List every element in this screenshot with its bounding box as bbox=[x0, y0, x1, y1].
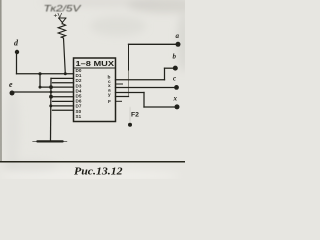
svg-text:e: e bbox=[9, 80, 13, 89]
svg-text:b: b bbox=[173, 53, 177, 61]
svg-text:y: y bbox=[108, 93, 111, 98]
svg-text:1–8 MUX: 1–8 MUX bbox=[76, 61, 115, 68]
svg-text:a: a bbox=[176, 32, 180, 40]
svg-text:Тк2/5V: Тк2/5V bbox=[44, 4, 83, 15]
svg-text:S1: S1 bbox=[76, 114, 82, 119]
svg-text:Рис.13.12: Рис.13.12 bbox=[74, 166, 123, 178]
svg-text:F: F bbox=[108, 99, 111, 105]
svg-text:F2: F2 bbox=[131, 112, 139, 119]
svg-text:+V: +V bbox=[54, 13, 63, 20]
svg-text:c: c bbox=[173, 75, 176, 83]
svg-text:x: x bbox=[173, 95, 178, 103]
